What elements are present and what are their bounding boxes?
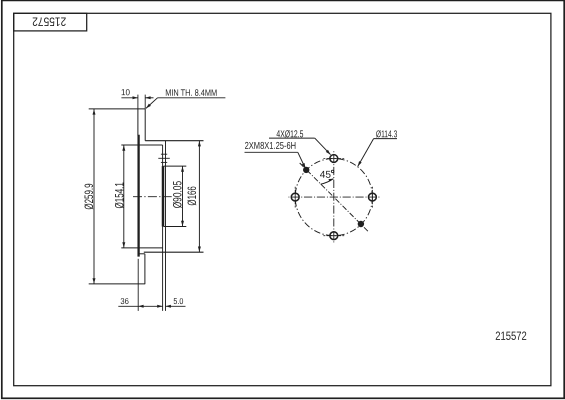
- svg-text:215572: 215572: [495, 329, 527, 343]
- svg-text:MIN TH. 8.4MM: MIN TH. 8.4MM: [165, 88, 217, 98]
- svg-text:215572: 215572: [32, 15, 66, 29]
- svg-text:2XM8X1.25-6H: 2XM8X1.25-6H: [245, 141, 297, 152]
- svg-text:Ø90.05: Ø90.05: [171, 181, 185, 209]
- svg-text:5.0: 5.0: [173, 296, 183, 306]
- svg-text:Ø154.1: Ø154.1: [112, 182, 126, 209]
- svg-text:36: 36: [120, 296, 129, 306]
- svg-text:10: 10: [121, 87, 130, 97]
- svg-text:Ø166: Ø166: [185, 186, 199, 206]
- svg-text:Ø259.9: Ø259.9: [82, 183, 96, 209]
